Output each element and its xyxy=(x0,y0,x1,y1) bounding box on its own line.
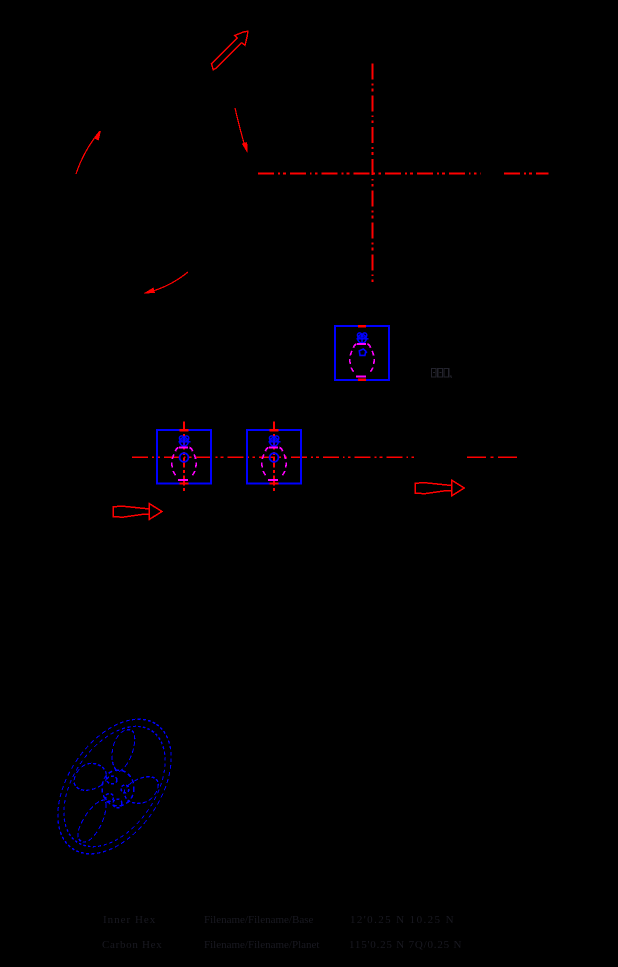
motor cluster symbol box 2 xyxy=(179,436,191,447)
fan blade 2 xyxy=(120,772,162,807)
centerline cross horizontal right segment xyxy=(504,173,549,175)
block arrow (outlined, pointing up-right, top) xyxy=(211,31,247,70)
red tick top of box 1 xyxy=(358,325,366,328)
fan blade 3 xyxy=(72,796,114,846)
red tick top of box 2 xyxy=(180,429,189,431)
motor cluster symbol box 3 xyxy=(269,436,281,447)
svg-text:115'0.25 N 7Q/0.25 N: 115'0.25 N 7Q/0.25 N xyxy=(349,939,462,951)
fan hub xyxy=(102,770,134,806)
red tick bottom of box 3 xyxy=(270,482,279,484)
centerline cross horizontal (top right) xyxy=(258,173,481,175)
flow arrow A (outlined, pointing right, lower-left) xyxy=(113,504,162,520)
fan hub bolt hole 1 xyxy=(107,776,117,784)
pear bottom dash box 2 xyxy=(178,479,188,481)
center circle symbol box 2 xyxy=(180,453,189,462)
fan outer rim xyxy=(34,699,194,875)
fan hub bolt hole 4 xyxy=(113,799,122,808)
pear bottom dash box 3 xyxy=(268,479,278,481)
fan blade 1 xyxy=(105,728,139,772)
leader arrow (curved, head pointing down, near top center) xyxy=(235,108,248,153)
pentagon port symbol box 1 xyxy=(359,349,367,355)
fan wheel isometric (blue dashed wireframe, bottom-left) xyxy=(34,699,194,875)
fixture box 2 (blue square, left) xyxy=(157,430,211,484)
pear top dash box 1 xyxy=(357,343,366,345)
fan blade 4 xyxy=(70,758,112,798)
svg-text:Carbon Hex: Carbon Hex xyxy=(102,939,162,951)
horizontal centerline right segment xyxy=(467,456,521,458)
vertical centerline box 2 xyxy=(183,422,185,494)
pear top dash box 2 xyxy=(179,447,188,449)
fixture box 3 (blue square, right) xyxy=(247,430,301,484)
motor cluster symbol box 1 xyxy=(357,333,369,344)
center circle symbol box 3 xyxy=(270,453,279,462)
table row 1 (dark text) xyxy=(103,914,455,926)
vertical centerline box 3 xyxy=(273,422,275,494)
table row 2 (dark text) xyxy=(102,939,462,951)
svg-text:Filename/Filename/Base: Filename/Filename/Base xyxy=(204,914,313,926)
pear outline (dashed magenta) box 2 xyxy=(172,448,196,478)
fan inner rim xyxy=(43,708,186,865)
pear outline (dashed magenta) box 1 xyxy=(350,344,374,374)
leader arrow (upper-left, head pointing up-right) xyxy=(76,131,101,175)
label (dark glyph blocks right of box 1) xyxy=(432,369,452,378)
red tick bottom of box 1 xyxy=(358,379,366,382)
red tick top of box 3 xyxy=(270,429,279,431)
svg-text:Filename/Filename/Planet: Filename/Filename/Planet xyxy=(204,939,319,951)
red tick bottom of box 2 xyxy=(180,482,189,484)
centerline cross vertical (top right) xyxy=(372,64,374,286)
long horizontal centerline through boxes 2 and 3 xyxy=(132,456,416,458)
pear top dash box 3 xyxy=(269,447,278,449)
fan hub bolt hole 3 xyxy=(106,794,114,802)
leader arrow (curved, head pointing left, middle-left) xyxy=(144,272,189,294)
svg-text:Inner Hex: Inner Hex xyxy=(103,914,156,926)
flow arrow B (outlined, pointing right, middle-right) xyxy=(415,480,464,496)
fixture box 1 (blue square, upper) xyxy=(335,326,389,380)
pear outline (dashed magenta) box 3 xyxy=(262,448,286,478)
pear bottom dash box 1 xyxy=(356,376,366,378)
fan hub bolt hole 2 xyxy=(121,785,129,793)
svg-text:12'0.25 N 10.25 N: 12'0.25 N 10.25 N xyxy=(350,914,455,926)
